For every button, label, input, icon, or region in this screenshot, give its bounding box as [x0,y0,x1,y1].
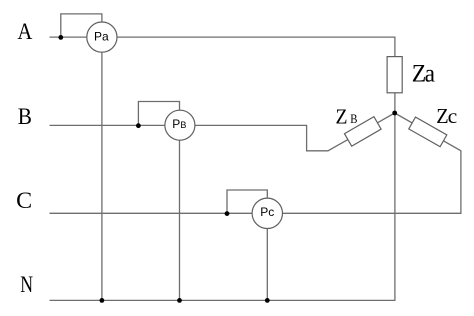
svg-text:Pc: Pc [260,205,274,219]
svg-text:Pa: Pa [94,30,109,44]
svg-text:c: c [448,106,458,128]
svg-text:B: B [350,112,357,126]
svg-text:B: B [18,104,32,129]
svg-text:C: C [16,188,32,213]
svg-text:a: a [425,61,435,88]
svg-text:N: N [20,272,33,297]
svg-text:Z: Z [336,104,348,128]
svg-text:PB: PB [172,117,186,131]
svg-text:A: A [17,19,32,44]
